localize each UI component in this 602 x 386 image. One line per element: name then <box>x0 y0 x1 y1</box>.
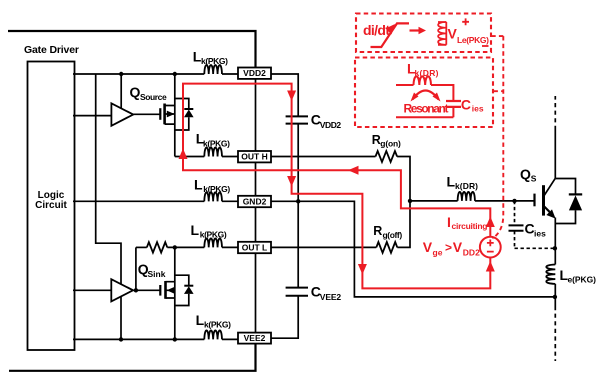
wire top rail from gate driver to VDD2 pin <box>8 31 256 68</box>
wire Rg(on) to gate node <box>397 157 410 201</box>
svg-text:Q: Q <box>130 84 141 100</box>
svg-text:L: L <box>194 177 203 193</box>
wire OUT L pin to Rg(off) <box>271 246 376 248</box>
node QS gate / Cies junction <box>512 199 516 203</box>
transistor QS IGBT <box>535 178 556 216</box>
wire VDD2 pin to CVDD2 top <box>271 74 298 116</box>
wire GND2 pin to kelvin return <box>271 201 555 297</box>
wire resonant bottom <box>396 107 453 117</box>
red dashed pointer from annotation boxes to source <box>491 36 503 238</box>
wire buffer output resistor branch <box>136 246 147 248</box>
resistor Rg(off) <box>376 242 397 253</box>
svg-text:Circuit: Circuit <box>35 200 67 211</box>
node VEE2 rail / QSink source junction <box>173 337 177 341</box>
resistor between OUT L and QSink gate node <box>147 242 168 252</box>
node GND2 / CVDD2 junction <box>296 199 300 203</box>
svg-text:k(PKG): k(PKG) <box>204 320 231 330</box>
svg-text:k(PKG): k(PKG) <box>203 184 230 194</box>
svg-text:S: S <box>531 174 537 184</box>
QSource bulk arrow (points right) <box>167 111 175 118</box>
inductor Lk(DR) humps <box>458 192 475 201</box>
red arrow left on upper path <box>348 166 359 175</box>
svg-text:Gate Driver: Gate Driver <box>24 44 79 56</box>
svg-text:L: L <box>191 222 200 238</box>
wire lower buffer output up to resistor <box>135 247 137 290</box>
wire QS emitter to Le(PKG) <box>554 218 556 265</box>
inductor Lk(PKG) VEE2 humps <box>204 330 222 339</box>
svg-text:Resonant: Resonant <box>404 101 449 115</box>
node gate resistor junction <box>408 199 412 203</box>
wire lower buffer output to QSink gate <box>133 289 160 291</box>
wire logic to lower buffer input <box>73 289 111 291</box>
svg-text:k(PKG): k(PKG) <box>201 56 228 66</box>
node VEE2 rail / buffer supply junction <box>119 337 123 341</box>
pin boxes <box>238 68 271 344</box>
diode QSource body <box>175 99 194 131</box>
wire buffer supply line B to upper buffer <box>120 74 122 108</box>
red arrow up into source bottom <box>486 261 495 272</box>
svg-text:I: I <box>447 214 451 230</box>
node emitter / kelvin return junction <box>553 295 557 299</box>
wire VDD2 rail from logic circuit <box>73 73 238 75</box>
QS emitter arrow <box>544 206 550 212</box>
red arrow down at x362 <box>358 264 367 275</box>
svg-text:k(PKG): k(PKG) <box>203 139 230 149</box>
svg-text:C: C <box>461 97 471 113</box>
node VDD2 rail / QSource drain junction <box>173 72 177 76</box>
wire emitter dashed continuation down <box>554 306 556 361</box>
svg-text:di/dt: di/dt <box>363 22 390 38</box>
svg-text:Q: Q <box>520 166 531 182</box>
pin VEE2 <box>238 333 271 344</box>
node emitter / Cies junction <box>553 246 557 250</box>
svg-text:circuiting: circuiting <box>452 221 488 231</box>
inductor Le(PKG) coil <box>546 265 555 284</box>
svg-text:>: > <box>445 241 452 255</box>
node OUT L / QSink drain junction <box>173 245 177 249</box>
transistor QSink n-channel <box>160 247 175 339</box>
red arrow up above source <box>486 217 495 228</box>
wire QS collector <box>554 130 556 178</box>
wire logic to upper buffer input <box>73 115 111 117</box>
red circulating current loop <box>183 84 490 289</box>
wire red loop <box>183 84 490 289</box>
pin OUT H <box>238 151 271 162</box>
svg-text:R: R <box>373 224 382 238</box>
wire resistor to OUT L node <box>167 246 238 248</box>
pin OUT L <box>238 242 271 253</box>
resistor Rg(on) <box>376 151 398 162</box>
wire QS collector dashed continuation <box>554 96 556 130</box>
wire lower buffer negative supply to VEE2 rail <box>120 297 122 340</box>
capacitor CVEE2 <box>286 288 308 296</box>
wire Lk(DR) from gate node to QS gate <box>410 200 534 202</box>
svg-text:V: V <box>453 239 463 255</box>
svg-text:V: V <box>448 26 458 42</box>
svg-text:VDD2: VDD2 <box>320 120 342 130</box>
capacitor Cies dashed branch <box>509 201 555 248</box>
svg-text:g(off): g(off) <box>383 230 403 240</box>
svg-text:VEE2: VEE2 <box>244 333 266 343</box>
wire package pin boundary vertical <box>255 79 257 333</box>
wire VEE2 rail from logic circuit <box>73 338 238 340</box>
svg-text:g(on): g(on) <box>380 139 401 149</box>
inductor Lk(PKG) GND2 humps <box>204 192 222 201</box>
svg-text:DD2: DD2 <box>463 248 480 258</box>
inductor Lk(PKG) OUT L humps <box>204 238 222 247</box>
wire Rg(off) to gate node <box>397 201 410 248</box>
svg-text:ge: ge <box>433 248 443 258</box>
wire CVEE2 bottom to VEE2 pin <box>271 296 298 338</box>
capacitor CVDD2 <box>286 116 308 123</box>
wire upper buffer output to QSource gate <box>133 113 160 115</box>
plus sign <box>462 18 469 25</box>
svg-text:k(PKG): k(PKG) <box>200 230 227 240</box>
di/dt ramp symbol <box>371 23 410 47</box>
wire OUT H pin to Rg(on) <box>271 156 376 158</box>
inductor Lk(PKG) OUT H humps <box>204 148 222 157</box>
inductor Lk(PKG) VDD2 humps <box>204 65 222 74</box>
logic circuit block <box>28 62 75 351</box>
inductor Lk(DR) humps in box <box>414 76 431 85</box>
wire logic to GND2 rail <box>73 200 238 202</box>
red arrow down through CVDD2 <box>287 91 296 102</box>
node lower buffer output junction <box>134 288 138 292</box>
svg-text:GND2: GND2 <box>243 196 267 206</box>
diode freewheel across QS <box>555 179 582 224</box>
wire buffer supply line A to lower buffer <box>96 74 121 284</box>
arrow to inductor <box>410 29 421 31</box>
inductor symbol in box <box>438 22 446 45</box>
op-amp buffer upper <box>111 103 133 126</box>
wire CVDD2 bottom to GND2 node <box>297 124 299 202</box>
wire bottom rail from VEE2 pin <box>9 344 256 371</box>
node VDD2 rail / buffer B junction <box>119 72 123 76</box>
svg-text:V: V <box>423 239 433 255</box>
transistor QSource p-channel <box>160 74 175 157</box>
red arrow down above GND2 elbow <box>287 176 296 187</box>
svg-text:VDD2: VDD2 <box>243 68 266 78</box>
resonant double arrow arc <box>413 91 439 100</box>
red arrow up at x183 <box>179 149 188 160</box>
annotation box resonant <box>355 58 493 128</box>
wire Le(PKG) to emitter return node <box>554 284 556 306</box>
svg-text:e(PKG): e(PKG) <box>568 275 597 285</box>
wire resonant top <box>396 85 453 101</box>
svg-text:Source: Source <box>140 92 167 102</box>
svg-text:Sink: Sink <box>148 269 166 279</box>
diode QSink body <box>175 275 194 305</box>
svg-text:ies: ies <box>534 229 546 239</box>
QSink bulk arrow (points left) <box>167 287 175 294</box>
wire CVEE2 branch from GND2 node <box>297 201 299 287</box>
annotation box di/dt <box>356 14 491 53</box>
pin VDD2 <box>238 68 271 79</box>
capacitor Cies in box <box>446 101 461 107</box>
svg-text:ies: ies <box>472 104 484 114</box>
pin GND2 <box>238 196 271 207</box>
wire QSource source to OUT H <box>175 156 238 158</box>
voltage source Vge <box>480 237 501 258</box>
svg-text:OUT H: OUT H <box>241 152 267 162</box>
op-amp buffer lower <box>111 279 133 301</box>
svg-text:k(DR): k(DR) <box>455 181 478 191</box>
minus sign <box>482 45 489 47</box>
svg-text:Le(PKG): Le(PKG) <box>457 35 489 45</box>
svg-text:OUT L: OUT L <box>242 242 268 252</box>
svg-text:VEE2: VEE2 <box>320 292 342 302</box>
